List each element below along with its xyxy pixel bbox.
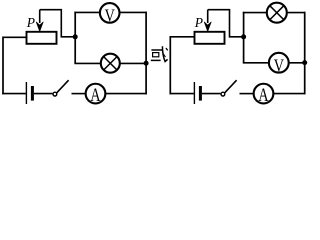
switch S (right circuit) <box>221 80 237 96</box>
svg-text:P: P <box>194 15 203 30</box>
wire: right circuit bottom to battery <box>170 93 194 95</box>
lamp L (right circuit) <box>267 3 287 23</box>
wire: wiper connection (right) <box>208 10 244 37</box>
voltmeter V (right circuit) <box>269 53 289 76</box>
wire: right circuit far-left vertical <box>169 36 171 94</box>
wire: battery to switch (left circuit) <box>34 93 53 95</box>
wire: voltmeter branch right (right circuit) <box>289 62 306 64</box>
battery (left circuit) <box>26 82 32 104</box>
wire: battery to switch (right circuit) <box>202 93 221 95</box>
label P (right) <box>194 15 203 30</box>
svg-text:A: A <box>258 86 269 106</box>
ammeter A (left circuit) <box>86 84 106 106</box>
wire: voltmeter branch right (left circuit) <box>120 11 147 13</box>
junction: wiper to parallel box (left) <box>73 34 78 39</box>
wiper arrow (right) <box>204 10 211 32</box>
wire: parallel box right vertical (left circuit) <box>145 12 147 95</box>
svg-text:V: V <box>105 6 115 26</box>
rheostat P (left circuit) <box>27 32 57 44</box>
wire: left circuit rheostat lead <box>3 36 27 38</box>
wire: lamp branch left (left circuit) <box>74 62 101 64</box>
svg-text:P: P <box>26 15 35 30</box>
wire: lamp branch left (right circuit) <box>243 12 268 14</box>
voltmeter V (left circuit) <box>100 3 120 26</box>
battery (right circuit) <box>194 82 200 104</box>
wire: switch to ammeter (right circuit) <box>240 93 254 95</box>
wire: ammeter to right vertical (right circuit) <box>273 93 305 95</box>
wire: switch to ammeter (left circuit) <box>72 93 86 95</box>
junction: lamp branch to right vertical (left circuit) <box>144 61 149 66</box>
lamp L (left circuit) <box>101 54 120 73</box>
switch S (left circuit) <box>53 80 69 96</box>
wire: parallel box left vertical (left circuit) <box>74 12 76 64</box>
svg-text:V: V <box>274 55 284 75</box>
wire: left circuit far-left vertical <box>2 37 4 95</box>
wire: voltmeter branch left (left circuit) <box>74 11 100 13</box>
wire: lamp branch right (right circuit) <box>287 12 306 14</box>
wire: right circuit rheostat lead <box>170 36 195 38</box>
wire: lamp branch right (left circuit) <box>120 62 147 64</box>
wiper arrow (left) <box>36 10 43 32</box>
rheostat P (right circuit) <box>195 32 225 44</box>
wire: voltmeter branch left (right circuit) <box>243 62 269 64</box>
label 或 (or) <box>151 46 168 61</box>
wire: wiper connection (left) <box>40 10 75 37</box>
wire: left circuit bottom to battery <box>2 93 26 95</box>
label P (left) <box>26 15 35 30</box>
wire: parallel box right vertical (right circuit) <box>304 12 306 95</box>
wire: parallel box left vertical (right circuit) <box>243 12 245 63</box>
wire: ammeter to right vertical (left circuit) <box>105 93 147 95</box>
junction: wiper to parallel box (right) <box>241 34 246 39</box>
junction: voltmeter branch to right vertical (right circuit) <box>302 60 307 65</box>
ammeter A (right circuit) <box>254 84 274 106</box>
svg-text:A: A <box>90 86 101 106</box>
